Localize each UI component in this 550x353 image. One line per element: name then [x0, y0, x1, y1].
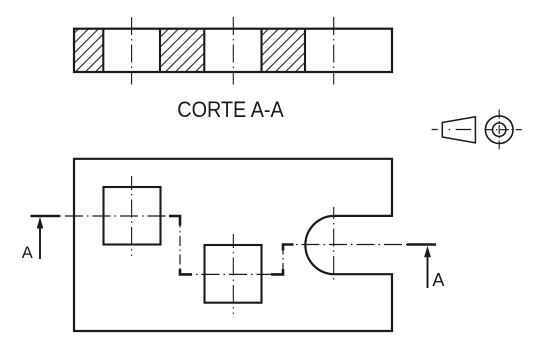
- svg-text:A: A: [432, 270, 444, 290]
- svg-text:CORTE A-A: CORTE A-A: [177, 97, 284, 122]
- svg-text:A: A: [22, 244, 33, 262]
